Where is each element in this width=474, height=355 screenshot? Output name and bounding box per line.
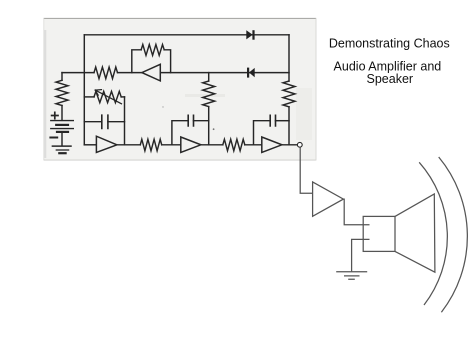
svg-text:Demonstrating Chaos: Demonstrating Chaos xyxy=(329,37,450,51)
svg-text:Speaker: Speaker xyxy=(367,72,414,86)
